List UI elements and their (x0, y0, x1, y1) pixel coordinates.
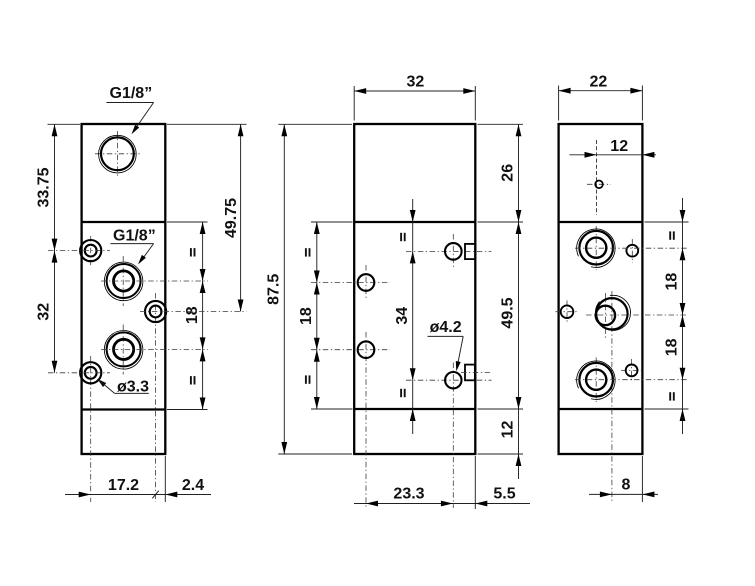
dimension line 34 column (412, 199, 414, 434)
arrow 8 right outside (642, 492, 654, 498)
leader G1/8 side underline (110, 243, 153, 245)
right view bottom small hole centerlines (621, 369, 643, 371)
svg-text:17.2: 17.2 (108, 477, 139, 494)
dimension line 17.2/2.4 (65, 494, 211, 496)
svg-text:G1/8”: G1/8” (110, 85, 153, 102)
dimension line =/18/= column (202, 222, 204, 410)
svg-text:18: 18 (664, 338, 681, 356)
arrow 87.5 top (281, 124, 287, 136)
svg-text:32: 32 (36, 303, 53, 321)
middle left hole 2 circle (358, 341, 375, 358)
arrow mid eq2 (314, 397, 320, 409)
side port hole 1 thin thread arc (104, 262, 143, 301)
side port hole 2 inner circle (114, 339, 134, 359)
right view bottom port outer circle (579, 363, 613, 397)
arrow 34col bottom (410, 368, 416, 380)
svg-text:49.75: 49.75 (223, 198, 240, 238)
arrow mid eq1 (314, 222, 320, 234)
arrow eq1 top (200, 222, 206, 234)
arrow 22 left (559, 88, 571, 94)
extension dash-dot at hole C (48, 372, 110, 374)
leader o3.3 underline (115, 392, 149, 394)
arrow rcol bottom port (680, 368, 686, 380)
right view bottom port thin arc (577, 361, 615, 399)
extension line right bottom (478, 453, 524, 455)
middle left hole 1 centerlines (311, 282, 390, 284)
right view upper divider (559, 221, 643, 223)
extension line right lower divider (478, 408, 524, 410)
hole B right o3.3 outer circle (145, 301, 166, 322)
equals mark mid lower (305, 375, 310, 383)
arrow 26 top (516, 124, 522, 136)
extension line right top (478, 123, 524, 125)
right view top port centerline (595, 226, 597, 270)
extension line lower divider right (167, 409, 208, 411)
extension lines 22 dim (558, 86, 560, 121)
leader G1/8 top underline (106, 102, 153, 104)
arrow pair mid hole2 (314, 338, 320, 350)
svg-text:5.5: 5.5 (493, 486, 515, 503)
svg-text:87.5: 87.5 (265, 274, 282, 305)
right view top port thin arc (577, 229, 615, 267)
arrow 12 right outside (642, 152, 654, 158)
svg-text:18: 18 (184, 306, 201, 324)
hole A upper-left o3.3 inner circle (85, 245, 97, 257)
dimension line 22 (559, 90, 643, 92)
arrow 12 bottom outside (516, 454, 522, 466)
notch centerline (461, 372, 492, 374)
extension line divider right (167, 221, 208, 223)
arrow 32 right (463, 88, 475, 94)
extension line top edge left (48, 123, 81, 125)
right view body outline (559, 124, 643, 454)
arrow 32 bottom (52, 361, 58, 373)
right view middle hole centerline small (604, 293, 606, 338)
arrow 49.75 bottom (238, 300, 244, 312)
arrow pair mid hole1 (314, 271, 320, 283)
leader o4.2 arrowhead (454, 361, 461, 372)
top face small hole centerline vertical (596, 140, 598, 215)
equals mark lower left view (190, 376, 196, 384)
equals mark rcol upper (669, 231, 675, 239)
extension dash-dot hole1 (101, 280, 208, 282)
right view middle hole thin arc (595, 295, 630, 330)
extension line 87.5 top (278, 123, 352, 125)
svg-text:26: 26 (499, 164, 516, 182)
svg-text:12: 12 (499, 421, 516, 439)
arrow pair at hole A level (52, 239, 58, 251)
extension dash-dot hole2 (101, 348, 208, 350)
right view bottom port centerline (595, 358, 597, 403)
extension line mid divider left (311, 221, 353, 223)
extension line mid lower divider left (311, 408, 353, 410)
arrow 87.5 bottom (281, 442, 287, 454)
hole A upper-left o3.3 centerline (90, 236, 92, 266)
arrow 34col at lower divider (410, 409, 416, 421)
leader G1/8 top arrowhead (129, 125, 139, 136)
arrow rcol divider (680, 210, 686, 222)
svg-text:G1/8”: G1/8” (113, 227, 156, 244)
svg-text:12: 12 (610, 138, 628, 155)
leader o4.2 diagonal (457, 336, 463, 368)
equals mark 34col lower (400, 389, 406, 397)
hole C lower-left o3.3 inner circle (85, 367, 97, 379)
extension line middle right edge bottom (474, 456, 476, 509)
oblique tick at 17.2/2.4 boundary (152, 491, 158, 499)
equals mark 34col upper (400, 233, 406, 241)
arrow pair rcol middle (680, 303, 686, 315)
dimension line 49.75 column (240, 124, 242, 311)
side port hole 2 thin thread arc (104, 331, 143, 370)
top G1/8 port hole thin thread arc (99, 135, 137, 173)
right view bottom small hole circle (626, 365, 638, 377)
side port hole 1 outer circle (107, 264, 141, 298)
side port hole 1 inner circle (114, 271, 134, 291)
right view middle hole big circle (596, 298, 627, 329)
hole C lower-left o3.3 outer circle (80, 362, 101, 383)
svg-text:2.4: 2.4 (182, 477, 204, 494)
middle right hole 1 centerlines (406, 250, 492, 252)
arrow pair at side hole 2 (200, 337, 206, 349)
extension lines 32 dim (353, 86, 355, 121)
right view left edge small hole circle (561, 305, 574, 318)
dimension line 87.5 (283, 124, 285, 454)
top G1/8 port hole centerlines (95, 153, 142, 155)
dimension line 26/49.5/12 (518, 124, 520, 479)
svg-text:8: 8 (621, 477, 630, 494)
right view bottom port inner circle (586, 370, 606, 390)
extension line right col lower divider (645, 408, 689, 410)
equals mark rcol lower (669, 392, 675, 400)
right view top port inner circle (586, 238, 606, 258)
middle right hole 2 circle (445, 372, 461, 388)
extension dash-dot at hole A (48, 250, 110, 252)
middle left hole 2 centerlines (311, 349, 390, 351)
leader G1/8 side arrowhead (136, 255, 146, 266)
extension line top edge right (167, 123, 247, 125)
right view top port outer circle (579, 231, 613, 265)
middle right hole 1 circle (445, 243, 462, 260)
arrow 5.5 outside (475, 501, 487, 507)
arrow 12 left outside (585, 152, 597, 158)
arrow 34col top (410, 251, 416, 263)
svg-text:23.3: 23.3 (393, 486, 424, 503)
right view top small hole circle (626, 245, 638, 257)
middle left hole 1 circle (358, 274, 375, 291)
arrow 34col at divider (410, 210, 416, 222)
hole B right o3.3 centerline vertical (155, 293, 157, 502)
left view body outline (82, 124, 166, 454)
arrow pair at side hole 1 (200, 269, 206, 281)
right view middle hole centerline long vertical (611, 291, 613, 502)
top face small hole centerline horizontal (587, 183, 611, 185)
svg-text:ø4.2: ø4.2 (430, 319, 462, 336)
arrow rcol lower divider (680, 409, 686, 421)
leader G1/8 top diagonal (133, 103, 154, 133)
arrow 49.75 top (238, 124, 244, 136)
dimension line 32 (354, 90, 475, 92)
middle right hole 2 edge notch square (465, 365, 475, 381)
right view left edge small hole centerlines (556, 311, 580, 313)
dimension line =/18/18/= right column (682, 198, 684, 434)
arrow pair at divider (516, 210, 522, 222)
svg-text:32: 32 (407, 74, 425, 91)
left view upper divider line (82, 221, 166, 223)
arrow 8 left outside (600, 492, 612, 498)
arrow 33.75 top (52, 124, 58, 136)
leader G1/8 side diagonal (140, 244, 154, 263)
extension dash-dot hole B horizontal (140, 311, 247, 313)
arrow 17.2 left outside (79, 492, 91, 498)
extension dash-dot bottom port (575, 379, 688, 381)
leader o3.3 arrowhead (95, 377, 106, 387)
svg-text:22: 22 (590, 74, 608, 91)
extension dash-dot middle hole (586, 314, 688, 316)
dimension line mid =/18/= column (316, 222, 318, 409)
arrow 22 right (630, 88, 642, 94)
svg-text:ø3.3: ø3.3 (117, 378, 149, 395)
top face small hole circle (595, 181, 603, 189)
leader o4.2 underline (428, 335, 464, 337)
extension line right divider (478, 221, 524, 223)
hole C lower-left o3.3 centerline vertical (90, 356, 92, 502)
svg-text:18: 18 (298, 307, 315, 325)
dimension line 23.3/5.5 (354, 503, 530, 505)
arrow 32 left (354, 88, 366, 94)
svg-text:49.5: 49.5 (499, 297, 516, 328)
middle view body outline (354, 124, 475, 454)
middle view upper divider (354, 221, 475, 223)
arrow rcol top port (680, 248, 686, 260)
right view lower divider (559, 408, 643, 410)
arrow eq2 bottom (200, 398, 206, 410)
arrow 49.5 bottom (516, 397, 522, 409)
extension line 87.5 bottom (278, 453, 352, 455)
arrow 23.3 right (441, 501, 453, 507)
middle view lower divider (354, 408, 475, 410)
leader o3.3 diagonal (99, 380, 115, 393)
svg-text:34: 34 (394, 307, 411, 325)
equals mark upper left view (190, 248, 196, 256)
middle right hole 1 edge notch square (465, 244, 475, 259)
arrow 2.4 right outside (165, 492, 177, 498)
right view middle hole small circle (596, 306, 615, 325)
left view lower divider line (82, 408, 166, 410)
side port hole 2 centerline (122, 325, 124, 375)
arrow 23.3 left (366, 501, 378, 507)
hole A upper-left o3.3 outer circle (80, 240, 101, 261)
dimension line 8 (589, 493, 658, 495)
svg-text:33.75: 33.75 (36, 167, 53, 207)
dimension line 12 top (570, 154, 657, 156)
extension line right edge bottom (164, 456, 166, 502)
extension line right col divider (645, 221, 689, 223)
svg-text:18: 18 (664, 273, 681, 291)
top G1/8 port hole bold circle (101, 137, 134, 170)
side port hole 1 centerline (122, 256, 124, 306)
equals mark mid upper (305, 248, 310, 256)
middle right hole 2 centerlines (406, 379, 492, 381)
dimension line 33.75/32 column (54, 124, 56, 372)
extension dash-dot top port (575, 247, 688, 249)
side port hole 2 outer circle (107, 332, 141, 366)
right view top small hole centerline (631, 239, 633, 263)
hole B right o3.3 inner circle (150, 306, 162, 318)
extension line right edge bottom right view (641, 456, 643, 502)
